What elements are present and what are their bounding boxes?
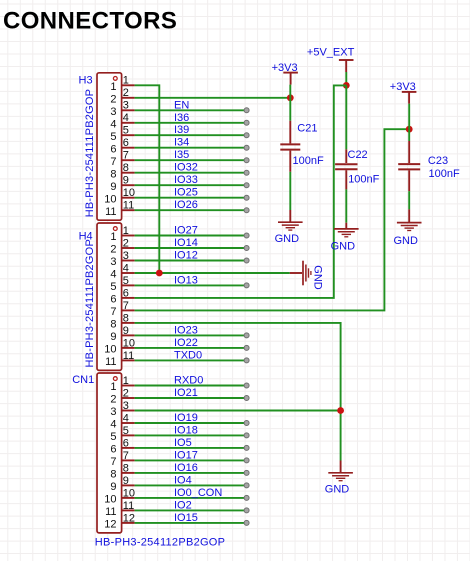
svg-text:10: 10 [104,344,116,356]
svg-text:8: 8 [110,469,116,481]
svg-text:IO4: IO4 [174,474,192,486]
svg-text:4: 4 [123,262,129,274]
svg-text:I35: I35 [174,149,189,161]
svg-text:8: 8 [123,162,129,174]
svg-text:GND: GND [311,265,323,290]
svg-text:IO2: IO2 [174,499,192,511]
svg-text:IO13: IO13 [174,274,198,286]
svg-text:4: 4 [110,269,116,281]
svg-text:1: 1 [110,231,116,243]
svg-text:6: 6 [123,137,129,149]
svg-text:1: 1 [110,81,116,93]
svg-text:C22: C22 [348,149,368,161]
svg-text:6: 6 [110,444,116,456]
svg-text:TXD0: TXD0 [174,349,202,361]
svg-text:10: 10 [123,187,135,199]
svg-text:100nF: 100nF [348,174,379,186]
svg-text:IO23: IO23 [174,324,198,336]
svg-text:IO32: IO32 [174,162,198,174]
svg-text:GND: GND [325,483,350,495]
svg-text:3: 3 [123,250,129,262]
svg-text:GND: GND [393,235,418,247]
svg-text:10: 10 [104,193,116,205]
svg-text:IO15: IO15 [174,512,198,524]
svg-text:I36: I36 [174,112,189,124]
svg-text:11: 11 [123,200,134,212]
svg-text:I34: I34 [174,137,189,149]
svg-text:7: 7 [110,156,116,168]
svg-text:6: 6 [123,437,129,449]
svg-text:IO22: IO22 [174,337,198,349]
svg-text:2: 2 [110,93,116,105]
svg-text:HB-PH3-254111PB2GOP: HB-PH3-254111PB2GOP [84,89,96,218]
svg-text:3: 3 [110,256,116,268]
svg-text:IO14: IO14 [174,237,198,249]
svg-text:CN1: CN1 [72,374,94,386]
svg-text:IO16: IO16 [174,462,198,474]
svg-text:6: 6 [110,294,116,306]
svg-text:7: 7 [110,306,116,318]
svg-text:IO17: IO17 [174,449,198,461]
svg-text:11: 11 [105,356,116,368]
svg-text:2: 2 [123,237,129,249]
svg-text:5: 5 [110,131,116,143]
svg-text:7: 7 [123,150,129,162]
svg-text:EN: EN [174,99,189,111]
svg-text:1: 1 [123,75,129,87]
svg-text:8: 8 [110,168,116,180]
svg-text:6: 6 [123,287,129,299]
svg-text:2: 2 [110,394,116,406]
svg-text:IO18: IO18 [174,424,198,436]
svg-text:7: 7 [123,300,129,312]
svg-text:C21: C21 [297,123,317,135]
svg-text:IO33: IO33 [174,174,198,186]
svg-text:4: 4 [110,118,116,130]
svg-text:8: 8 [123,312,129,324]
svg-text:4: 4 [110,419,116,431]
svg-text:GND: GND [275,233,300,245]
svg-text:1: 1 [110,381,116,393]
svg-text:RXD0: RXD0 [174,375,203,387]
svg-text:9: 9 [110,331,116,343]
svg-text:IO21: IO21 [174,387,198,399]
svg-text:9: 9 [110,181,116,193]
svg-text:1: 1 [123,225,129,237]
svg-text:+5V_EXT: +5V_EXT [307,46,355,58]
svg-text:8: 8 [110,319,116,331]
svg-text:9: 9 [110,481,116,493]
svg-text:10: 10 [104,494,116,506]
svg-text:3: 3 [123,400,129,412]
svg-text:11: 11 [123,500,134,512]
svg-text:12: 12 [123,512,135,524]
svg-text:2: 2 [110,244,116,256]
svg-text:IO19: IO19 [174,412,198,424]
svg-text:4: 4 [123,412,129,424]
svg-text:5: 5 [123,125,129,137]
svg-text:11: 11 [105,206,116,218]
svg-text:IO0_CON: IO0_CON [174,487,222,499]
svg-text:8: 8 [123,462,129,474]
svg-text:3: 3 [110,406,116,418]
svg-text:5: 5 [123,275,129,287]
svg-text:HB-PH3-254111PB2GOP: HB-PH3-254111PB2GOP [84,239,96,368]
svg-text:9: 9 [123,475,129,487]
svg-text:2: 2 [123,387,129,399]
svg-text:7: 7 [123,450,129,462]
svg-text:IO26: IO26 [174,199,198,211]
svg-text:5: 5 [110,431,116,443]
svg-text:CONNECTORS: CONNECTORS [3,8,177,35]
svg-text:C23: C23 [428,155,448,167]
svg-text:6: 6 [110,143,116,155]
svg-text:2: 2 [123,87,129,99]
svg-text:10: 10 [123,337,135,349]
svg-text:IO12: IO12 [174,250,198,262]
svg-text:9: 9 [123,325,129,337]
svg-text:12: 12 [104,519,116,531]
svg-text:IO27: IO27 [174,225,198,237]
svg-text:11: 11 [105,506,116,518]
svg-text:1: 1 [123,375,129,387]
svg-text:100nF: 100nF [293,155,324,167]
svg-text:7: 7 [110,456,116,468]
svg-text:9: 9 [123,175,129,187]
svg-text:3: 3 [110,106,116,118]
svg-text:100nF: 100nF [429,168,460,180]
svg-text:HB-PH3-254112PB2GOP: HB-PH3-254112PB2GOP [95,536,225,548]
svg-text:H3: H3 [79,75,93,87]
svg-text:3: 3 [123,100,129,112]
svg-text:+3V3: +3V3 [272,62,298,74]
svg-text:10: 10 [123,487,135,499]
svg-text:5: 5 [123,425,129,437]
svg-text:IO25: IO25 [174,187,198,199]
svg-text:IO5: IO5 [174,437,192,449]
svg-text:11: 11 [123,350,134,362]
svg-text:4: 4 [123,112,129,124]
svg-text:+3V3: +3V3 [390,81,416,93]
svg-text:5: 5 [110,281,116,293]
svg-text:GND: GND [331,241,356,253]
svg-text:I39: I39 [174,124,189,136]
